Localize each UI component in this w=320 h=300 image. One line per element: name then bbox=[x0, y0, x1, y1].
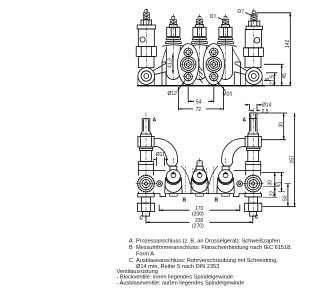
svg-text:M10: M10 bbox=[223, 92, 233, 98]
svg-text:(270): (270) bbox=[192, 224, 204, 230]
block left edge bbox=[162, 62, 166, 86]
dimension O14 top right bbox=[245, 102, 272, 110]
right wheel bbox=[243, 173, 264, 194]
port circle right bbox=[237, 181, 243, 187]
svg-text:41,3: 41,3 bbox=[168, 58, 174, 68]
right pipe assembly bbox=[245, 113, 262, 220]
dimension cluster right (45 / 21,5 / 5) bbox=[264, 64, 288, 85]
label square7 first bbox=[211, 15, 225, 21]
body saddle between B1-B2 bbox=[181, 166, 196, 185]
wing lines right ear to block bbox=[234, 63, 246, 85]
left wheel bbox=[136, 173, 157, 194]
svg-text:B: B bbox=[129, 245, 133, 251]
dimension 41,3 bbox=[168, 54, 174, 74]
block valve B3 bbox=[217, 158, 234, 194]
dimension 72 bbox=[178, 87, 223, 113]
centerline V3 bbox=[199, 14, 201, 80]
turned valve V4 bbox=[215, 16, 236, 79]
ear port right bbox=[245, 68, 262, 85]
B2 spindle stem bbox=[197, 161, 202, 167]
svg-text:72: 72 bbox=[196, 107, 202, 113]
block bottom line bbox=[137, 85, 266, 87]
svg-text:C: C bbox=[255, 215, 259, 221]
dimension label O12 with leader bbox=[168, 81, 186, 98]
right elbow tip chamfer bbox=[222, 163, 233, 167]
svg-text:C: C bbox=[129, 258, 133, 264]
centerline valve V1 bbox=[145, 9, 147, 71]
oval flange F1 bbox=[178, 44, 199, 85]
dimension 142 bbox=[257, 13, 292, 86]
valve V5 (top view, side) bbox=[244, 11, 264, 68]
svg-text:2,5: 2,5 bbox=[262, 109, 269, 115]
hidden bore dashed right bbox=[206, 167, 214, 194]
dimension 2,5 top right bbox=[249, 109, 269, 115]
turned valve V2 bbox=[163, 16, 184, 79]
svg-text:7: 7 bbox=[214, 15, 217, 21]
dimension 230 (270) bbox=[146, 217, 253, 230]
ear port left bbox=[138, 68, 155, 85]
dimension 54 bbox=[188, 87, 214, 105]
turned valve V3 bbox=[189, 16, 210, 79]
flange centerline left bbox=[187, 44, 189, 98]
centerline valve V5 bbox=[253, 9, 255, 71]
block valve B2 bbox=[191, 158, 208, 194]
svg-text:A: A bbox=[153, 118, 157, 124]
wing lines left ear to block bbox=[154, 62, 167, 86]
port circle left bbox=[157, 181, 163, 187]
block tabs under flanges bbox=[184, 83, 219, 86]
svg-text:A: A bbox=[129, 239, 133, 245]
svg-text:30: 30 bbox=[268, 180, 274, 186]
left elbow pipe bbox=[154, 139, 177, 163]
valve V1 (top view, side) bbox=[136, 10, 156, 68]
web scallop V3-V4 bbox=[207, 49, 219, 54]
ear boss left bbox=[138, 78, 155, 86]
label square7 second bbox=[238, 10, 252, 16]
svg-text:(200): (200) bbox=[192, 212, 204, 218]
oval flange F2 bbox=[203, 44, 224, 85]
svg-text:Ø11: Ø11 bbox=[156, 152, 165, 158]
left pipe assembly bbox=[137, 113, 154, 220]
svg-text:54: 54 bbox=[196, 99, 202, 105]
centerline V4 bbox=[225, 14, 227, 80]
hidden bore dashed left bbox=[185, 167, 193, 194]
svg-text:22: 22 bbox=[270, 191, 276, 197]
svg-text:157: 157 bbox=[290, 155, 296, 164]
body saddle between B2-B3 bbox=[203, 166, 218, 185]
right pipe weld stub extension bbox=[249, 113, 257, 119]
hatch sliver between flanges bbox=[199, 67, 203, 83]
svg-text:50: 50 bbox=[283, 195, 289, 201]
left elbow tip chamfer bbox=[167, 163, 178, 167]
svg-text:Messumformeranschluss: Flansch: Messumformeranschluss: Flanschverbindung… bbox=[136, 245, 292, 251]
svg-text:30: 30 bbox=[278, 122, 284, 128]
svg-text:A: A bbox=[243, 118, 247, 124]
manifold body outline bbox=[154, 170, 246, 196]
web scallop V4-wing bbox=[233, 49, 241, 63]
block valve B1 bbox=[165, 158, 182, 194]
right elbow pipe bbox=[222, 139, 245, 163]
svg-text:Ø14: Ø14 bbox=[262, 102, 272, 108]
dimension 30 upper right bbox=[258, 113, 288, 140]
svg-text:142: 142 bbox=[285, 39, 291, 48]
dimension chain 30/22 right bbox=[262, 173, 285, 198]
dimension 170 (200) bbox=[159, 205, 240, 218]
svg-text:C: C bbox=[140, 216, 144, 222]
web scallop V1-V2 bbox=[162, 49, 166, 63]
svg-text:Prozessanschluss (z. B. an Dro: Prozessanschluss (z. B. an Drosselgerät)… bbox=[136, 239, 280, 245]
ear boss right bbox=[245, 78, 262, 86]
web scallop V2-V3 bbox=[180, 49, 192, 54]
svg-text:- Ausblaseventile: außen liege: - Ausblaseventile: außen liegendes Spind… bbox=[117, 281, 245, 287]
svg-text:B: B bbox=[183, 198, 187, 204]
svg-text:B: B bbox=[215, 198, 219, 204]
dimension 157 bbox=[263, 113, 297, 207]
flange centerline right bbox=[213, 44, 215, 98]
dimension 50 right bbox=[283, 184, 291, 207]
svg-text:45: 45 bbox=[282, 73, 288, 79]
body feet under B valves bbox=[170, 194, 230, 197]
dimension O11 bbox=[153, 152, 167, 166]
svg-text:Ø12: Ø12 bbox=[168, 91, 178, 97]
centerline V2 bbox=[172, 14, 174, 80]
svg-text:Form A: Form A bbox=[136, 252, 154, 258]
block right edge bbox=[235, 62, 241, 86]
dimension label M10 with leader bbox=[217, 81, 233, 98]
svg-text:5: 5 bbox=[265, 78, 271, 81]
svg-text:41: 41 bbox=[276, 181, 282, 187]
dimension 41 right bbox=[276, 173, 285, 192]
svg-text:7: 7 bbox=[241, 10, 244, 16]
